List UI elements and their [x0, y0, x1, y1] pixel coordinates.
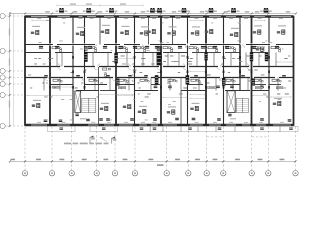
grid bubble 8 [186, 171, 191, 176]
interior wall y=44.5 [25, 44, 294, 46]
staircase left with lift shaft [75, 91, 96, 119]
vent shaft block S11 [205, 52, 208, 60]
roof vent stack symbol V7 [205, 8, 217, 13]
interior dimension lines [26, 20, 292, 99]
kitchen counters [52, 86, 283, 89]
grid bubble 5 [112, 171, 117, 176]
grid bubble 13 [293, 171, 298, 176]
grid bubble 11 [249, 171, 254, 176]
room label top (282,33.5) [277, 30, 285, 34]
interior wall y=84.5 [50, 84, 281, 86]
partition wall x=148.5 [148, 17, 150, 44]
room label top (258,33.5) [253, 30, 261, 34]
grid bubble 6 [132, 171, 137, 176]
bathroom fixtures band 2 [53, 79, 281, 82]
top dimension line [9, 12, 297, 14]
left axis bubble 1 [0, 13, 24, 18]
vent shaft block S10 [265, 52, 268, 61]
grid bubble 10 [221, 171, 226, 176]
lintel label row B [44, 75, 286, 88]
party wall at x=240 [239, 17, 241, 90]
roof vent stack symbol V3 [106, 8, 118, 13]
small annotation marks [28, 20, 291, 120]
vent shaft block S2 [84, 46, 87, 50]
heavy duct wall x=240 [239, 45, 241, 79]
room label top (172.5,34.5) [167, 31, 175, 35]
vent shaft block S3 [114, 53, 117, 64]
top dimension text row [45, 11, 290, 12]
building left exterior wall [24, 16, 26, 126]
room label bottom (37,107) [32, 103, 40, 107]
room label top (81,35) [76, 31, 84, 35]
vent shaft block S12 [116, 79, 119, 86]
building outer bottom wall with windows [25, 124, 294, 126]
grid bubble 3 [69, 171, 74, 176]
room label top (145,34.5) [140, 31, 148, 35]
grid bubble 1 [22, 171, 27, 176]
left axis bubble 2 [0, 48, 24, 53]
left axis bubble 7 [0, 123, 24, 128]
party wall at x=73 [72, 17, 74, 124]
roof vent stack symbol V5 [154, 8, 166, 13]
note text [64, 143, 109, 145]
left axis bubble 4 [0, 75, 24, 80]
interior wall y=52.5 [25, 52, 266, 54]
roof vent stack symbol V1 [56, 8, 68, 13]
room label bottom (128,108) [123, 104, 131, 108]
terrace T3 [133, 126, 151, 131]
partition wall x=181 [180, 91, 182, 125]
vent shaft block S9 [250, 52, 253, 61]
room label top (36,34) [31, 30, 39, 34]
window jamb dimension marks [37, 18, 284, 123]
party wall at x=84.5 [84, 17, 86, 90]
partition wall x=98.5 [98, 67, 100, 124]
wc fixture cluster centre [103, 68, 111, 76]
vent shaft block S1 [84, 52, 88, 62]
top mini dimension line [57, 3, 143, 6]
bottom dashed axis lines [25, 127, 296, 171]
balcony row right [150, 126, 298, 131]
terrace T2 [90, 126, 118, 131]
kitchen label [256, 47, 264, 51]
vent shaft block S8 [222, 78, 225, 86]
bathroom fixtures band 1 [52, 47, 281, 52]
grid bubble 2 [49, 171, 54, 176]
party wall at x=223.5 [223, 17, 225, 124]
left axis bubble 3 [0, 68, 24, 73]
room label bottom (143,113) [138, 109, 146, 113]
vent shaft block S7 [155, 75, 159, 84]
door leaf lines [48, 45, 255, 81]
bottom dimension line [9, 159, 297, 166]
vent shaft block S6 [186, 75, 190, 84]
terrace T1 [48, 126, 76, 131]
left secondary dimension line [12, 13, 14, 126]
grid bubble 4 [94, 171, 99, 176]
vent shaft block S13 [252, 79, 255, 86]
party wall at x=50 [49, 17, 51, 124]
elevation marker E2 [112, 137, 117, 144]
party wall at x=187.5 [187, 17, 189, 124]
room label top (106,33) [101, 29, 109, 33]
party wall at x=206 [205, 17, 207, 124]
building outer top wall with windows [25, 16, 294, 18]
door swing arcs [45, 45, 277, 81]
vent shaft block S5 [157, 46, 160, 50]
left axis bubble 6 [0, 92, 24, 97]
central spine wall y=66.5 [25, 66, 294, 68]
room label top (235,36) [230, 32, 238, 36]
interior wall y=90.5 [76, 90, 269, 92]
left axis bubble 5 [0, 81, 24, 86]
vent shaft block S4 [157, 52, 162, 66]
lintel label row A [39, 46, 279, 49]
leader line [100, 137, 107, 141]
grid bubble 12 [266, 171, 271, 176]
party wall at x=116 [115, 17, 117, 124]
faint room names [32, 25, 286, 108]
room label top (125.5,34) [120, 30, 128, 34]
roof vent stack symbol V6 [178, 8, 190, 13]
building right exterior wall [293, 16, 295, 126]
staircase right with lift shaft [227, 91, 248, 120]
party wall at x=134.5 [134, 17, 136, 124]
room label bottom (105,110) [100, 106, 108, 110]
grid bubble 7 [164, 171, 169, 176]
mid-band partition walls [44, 53, 278, 91]
room label top (152.5,33) [147, 29, 155, 33]
loggia labels row [44, 118, 292, 122]
partition wall x=172.5 [172, 17, 174, 44]
room label bottom (278,105) [273, 101, 281, 105]
roof vent stack symbol V2 [83, 8, 95, 13]
party wall at x=251.5 [251, 17, 253, 124]
party wall at x=161 [160, 17, 162, 124]
party wall at x=269 [268, 17, 270, 124]
grid bubble 9 [204, 171, 209, 176]
elevation marker E1 [90, 136, 95, 143]
room label bottom (195.5,110) [190, 106, 198, 110]
room label top (210,33) [205, 29, 213, 33]
room label top (196,34.5) [191, 31, 199, 35]
roof vent stack symbol V9 [260, 8, 272, 13]
room label bottom (172,113.5) [167, 110, 175, 114]
roof vent stack symbol V8 [228, 8, 240, 13]
left vertical dimension line [9, 12, 11, 127]
spine wall y=77.5 [25, 77, 294, 79]
roof vent stack symbol V4 [147, 8, 159, 13]
partition wall x=100 [99, 17, 101, 44]
